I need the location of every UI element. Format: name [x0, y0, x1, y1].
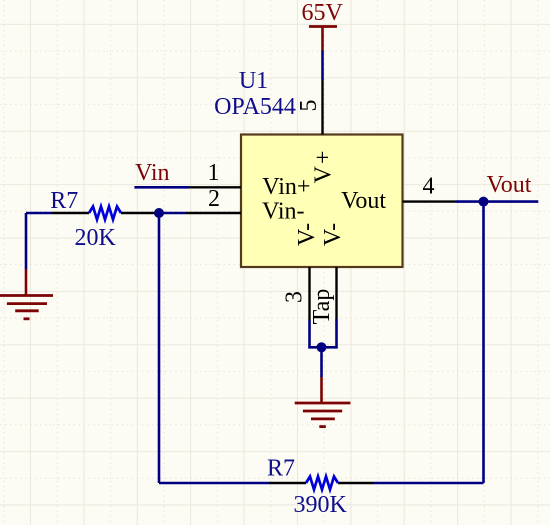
pin 2 (Vin-)	[186, 212, 241, 214]
wire Vin to pin 1	[134, 186, 189, 189]
svg-text:OPA544: OPA544	[214, 94, 296, 120]
wire junction to ground	[320, 347, 323, 377]
svg-text:Vout: Vout	[487, 172, 532, 198]
wire power to pin5	[321, 51, 324, 81]
wire bottom right	[374, 482, 484, 485]
junction node A	[154, 208, 164, 218]
svg-text:Vin: Vin	[135, 160, 170, 186]
pin Tap (V-)	[335, 267, 337, 319]
wire R7 to node A	[157, 212, 186, 215]
resistor R2 (R7 390K)	[269, 477, 374, 490]
pin 3 (V-)	[308, 267, 310, 320]
svg-text:3: 3	[281, 291, 307, 303]
wire ground to R7	[26, 213, 52, 269]
wire joining bottom pins	[308, 346, 337, 349]
svg-text:R7: R7	[267, 456, 295, 482]
wire right vertical	[482, 202, 485, 483]
svg-text:1: 1	[208, 160, 220, 186]
op-amp U1 body	[241, 135, 403, 268]
svg-text:5: 5	[296, 100, 322, 112]
wire pin3 down	[308, 320, 311, 348]
svg-text:V-: V-	[294, 223, 320, 246]
svg-text:Vin-: Vin-	[262, 198, 305, 224]
junction node Vout	[479, 197, 489, 207]
svg-text:V+: V+	[310, 149, 336, 184]
resistor R1 (R7 20K)	[52, 207, 157, 220]
svg-text:20K: 20K	[75, 225, 117, 251]
wire pinTap down	[335, 319, 338, 349]
wire node A down	[158, 213, 161, 483]
svg-text:R7: R7	[50, 188, 78, 214]
wire pin4 to Vout	[456, 200, 539, 203]
svg-text:4: 4	[423, 174, 435, 200]
svg-text:Vout: Vout	[341, 188, 386, 214]
pin 5 (V+)	[321, 80, 323, 135]
power port 65V bar	[309, 27, 337, 51]
ground symbol left	[0, 269, 53, 319]
svg-text:65V: 65V	[302, 0, 344, 26]
wire bottom left	[159, 482, 269, 485]
ground symbol middle	[295, 377, 351, 427]
svg-text:U1: U1	[239, 68, 268, 94]
svg-text:2: 2	[208, 186, 220, 212]
junction dot below tap	[317, 342, 327, 352]
svg-text:Vin+: Vin+	[262, 174, 310, 200]
pin 4 (Vout)	[403, 200, 456, 202]
svg-text:Tap: Tap	[309, 289, 335, 325]
pin 1 (Vin+)	[189, 186, 241, 188]
svg-text:V-: V-	[320, 223, 346, 246]
svg-text:390K: 390K	[294, 492, 348, 518]
